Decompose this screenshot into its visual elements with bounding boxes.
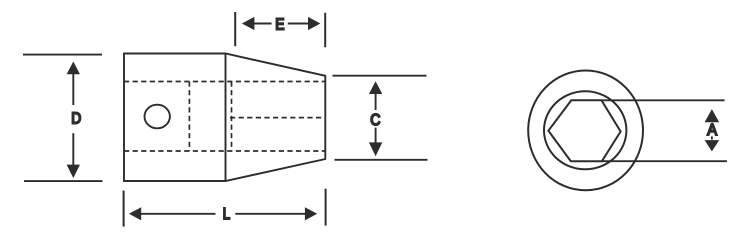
- dim D extension bottom: [24, 180, 103, 182]
- dim A extension bottom: [602, 160, 727, 162]
- dim L tick right: [325, 189, 327, 226]
- dim D line lower: [72, 133, 74, 165]
- dim D extension top: [23, 54, 102, 56]
- socket inner circle (end view): [544, 91, 626, 169]
- dim L line left: [141, 213, 216, 215]
- svg-text:C: C: [370, 112, 380, 129]
- dim C line lower: [375, 128, 377, 143]
- dim E line right: [288, 23, 309, 25]
- dim E line left: [254, 23, 272, 25]
- dim E tick right: [324, 13, 326, 48]
- dim A extension top: [601, 99, 725, 101]
- svg-text:L: L: [223, 206, 230, 223]
- dim D line upper: [72, 74, 74, 106]
- lower bore hidden line: [124, 150, 325, 152]
- dim C extension top: [333, 75, 427, 77]
- dim D arrow down: [67, 165, 80, 178]
- dim A line stub: [711, 136, 713, 139]
- dim E arrow right: [308, 17, 320, 30]
- socket outer circle (end view): [528, 70, 643, 190]
- dim C extension bottom: [335, 159, 428, 161]
- dim E arrow left: [242, 17, 255, 30]
- hex depth hidden line: [188, 82, 190, 152]
- drive depth hidden line: [231, 82, 233, 152]
- pin hole: [145, 105, 170, 129]
- dim C line upper: [375, 93, 377, 110]
- svg-text:D: D: [71, 110, 81, 127]
- dim L arrow right: [305, 207, 317, 220]
- svg-text:E: E: [275, 16, 284, 33]
- socket body outline: [124, 54, 325, 182]
- body/cone junction line: [225, 54, 227, 182]
- dim E tick left: [234, 12, 236, 46]
- dim L arrow left: [129, 207, 141, 220]
- dim L tick left: [123, 191, 125, 227]
- dim C arrow down: [369, 142, 382, 156]
- upper bore hidden line: [124, 81, 325, 83]
- dim A arrow up: [705, 109, 720, 122]
- center bore hidden line: [230, 117, 325, 119]
- dim C arrow up: [369, 81, 382, 94]
- dim D arrow up: [67, 62, 80, 75]
- hex opening: [548, 100, 620, 161]
- dim A arrow down: [705, 140, 720, 151]
- dim L line right: [235, 213, 305, 215]
